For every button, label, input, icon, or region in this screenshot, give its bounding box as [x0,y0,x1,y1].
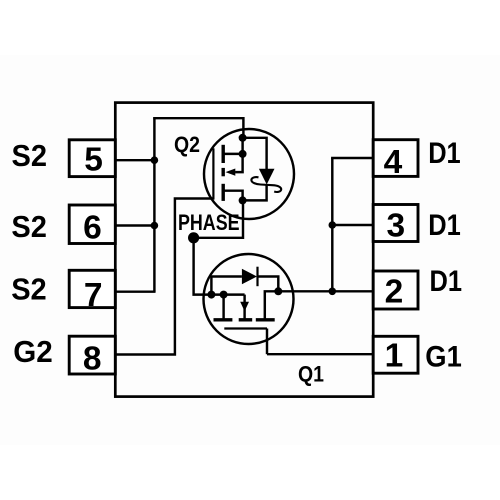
Q2 source stub [223,191,242,201]
junction dot Q1 cathode riser [274,287,282,295]
junction dot Q2 top rail [239,134,247,142]
junction dot D1 bus / pin3 [329,221,337,229]
svg-text:6: 6 [83,210,102,247]
Q1 channel bar middle [239,318,253,321]
Q1 body diode triangle [242,269,257,284]
wire pin2 / Q1 drain [278,290,373,292]
svg-text:1: 1 [385,338,404,375]
node PHASE dot [188,232,199,243]
Q2 gate bar [212,148,214,199]
Q1 gate riser to pin1 [266,329,268,355]
Q1 body diode cathode bar [256,267,258,287]
MOSFET Q2 circle [204,129,294,219]
pin 6 box [69,205,115,244]
svg-text:D1: D1 [428,137,461,170]
junction dot S2 bus / pin6 [151,222,159,230]
Q2 channel bar bottom [221,184,224,201]
D1 bus vertical [331,158,333,291]
svg-text:G1: G1 [425,340,462,373]
Q2 body diode triangle [259,169,275,185]
junction dot S2 bus / pin5 [151,156,159,164]
svg-text:PHASE: PHASE [178,210,240,235]
wire pin1 (G1) to Q1 gate riser [267,353,373,355]
Q1 anode riser [211,277,242,295]
pin 4 box [373,140,418,177]
Q2 channel bar top [221,145,224,163]
Q2 Schottky squiggle cathode [251,177,281,192]
wire pin8 (G2) to Q2 gate [115,199,213,355]
pin 1 box [373,336,418,373]
pin 7 box [69,270,115,307]
svg-text:7: 7 [84,277,103,314]
svg-text:Q2: Q2 [174,132,200,157]
S2 bus vertical [153,117,155,292]
Q2 drain stub [223,138,242,154]
junction dot Q1 left stub [220,291,228,299]
wire pin3 to D1 bus [332,224,373,226]
pin 8 box [69,336,115,374]
svg-text:S2: S2 [11,272,47,307]
wire pin5 to S2 bus [115,159,154,161]
Q2 body diode rail bottom [243,184,267,200]
pin 3 box [373,205,418,242]
svg-text:8: 8 [83,340,102,377]
wire pin4 to D1 bus [332,158,373,159]
Q2 body diode rail top [243,138,267,170]
IC body outline [115,103,373,397]
node PHASE wire to Q1 source [194,238,245,295]
junction dot D1 bus / pin2 [329,288,337,296]
junction dot Q2 drain stub [239,150,247,158]
svg-text:G2: G2 [13,334,53,369]
svg-text:D1: D1 [428,209,461,242]
svg-text:Q1: Q1 [298,362,324,387]
svg-text:D1: D1 [430,265,463,298]
wire S2 bus top to Q2 source [153,118,243,138]
pin 5 box [69,140,115,177]
wire pin6 to S2 bus [115,224,154,226]
node PHASE wire to Q2 drain [194,200,243,237]
Q1 cathode riser [258,277,279,292]
Q1 left channel stub [222,295,224,320]
svg-text:S2: S2 [11,209,47,244]
Q2 body arrow (points left) [226,169,236,176]
svg-text:2: 2 [385,273,404,310]
MOSFET Q1 circle [204,254,294,344]
Q1 body arrow (points down) [240,302,249,312]
Q1 channel bar right [256,318,275,321]
junction dot Q2 source/rail [239,196,247,204]
wire pin7 to S2 bus corner [115,290,155,292]
junction dot Q1 anode riser [207,291,215,299]
Q1 channel bar left [214,318,233,321]
Q1 gate bar [224,327,267,329]
svg-text:4: 4 [384,144,403,181]
Q2 body stub [235,154,243,172]
svg-text:3: 3 [386,208,405,245]
svg-text:S2: S2 [12,138,48,173]
Q1 drain stub [265,291,279,319]
Q1 body stub with arrow [243,295,245,320]
svg-text:5: 5 [84,142,103,179]
Q2 channel bar middle [221,168,224,176]
pin 2 box [373,271,418,309]
